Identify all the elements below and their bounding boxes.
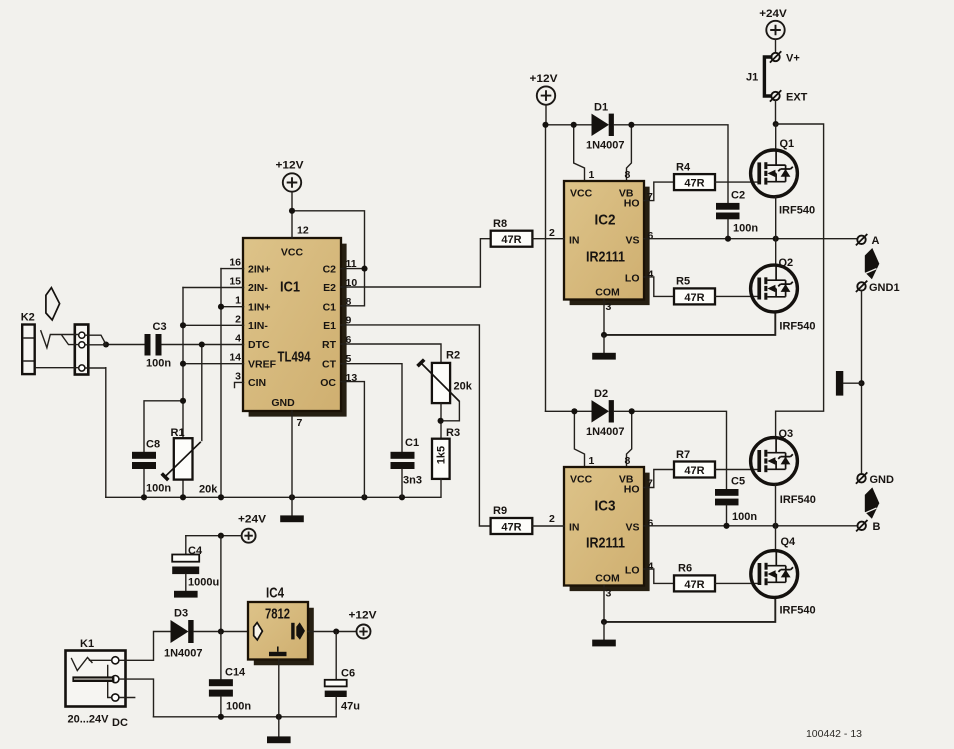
svg-text:IC1: IC1 [280, 279, 300, 296]
capacitor C14 100n [209, 632, 251, 717]
wire K1 pin1 to D3 [119, 632, 171, 661]
svg-text:IRF540: IRF540 [780, 605, 816, 617]
svg-text:DC: DC [112, 717, 128, 729]
svg-text:3: 3 [235, 370, 241, 382]
svg-text:20k: 20k [454, 381, 473, 393]
svg-text:100n: 100n [732, 511, 757, 523]
wire Q4 drain [775, 526, 777, 551]
svg-text:Q1: Q1 [780, 138, 795, 150]
svg-text:D3: D3 [174, 608, 188, 620]
wire COM pin3 down (IC3) [603, 586, 605, 622]
svg-text:47R: 47R [501, 522, 521, 534]
power +24V (bridge) [759, 8, 787, 39]
resistor R4 47R [674, 162, 715, 191]
wire VCC pin12 [291, 192, 293, 238]
terminal A [856, 234, 880, 247]
svg-text:1: 1 [589, 455, 595, 467]
wire R8 to IN [532, 238, 564, 240]
rail riser to K2 sleeve [105, 368, 107, 498]
svg-text:VS: VS [625, 521, 639, 533]
wire E2 pin10 to R8 [341, 239, 491, 287]
svg-text:C5: C5 [731, 476, 745, 488]
wire R1 leads [182, 401, 184, 498]
svg-text:GND1: GND1 [869, 282, 900, 294]
wire Q1 source to VS row [775, 197, 777, 239]
svg-text:100n: 100n [733, 223, 758, 235]
svg-text:J1: J1 [746, 72, 758, 84]
svg-text:CIN: CIN [248, 377, 266, 389]
wire Q2 drain [775, 239, 777, 266]
wire pin11 to pin8 (C2-C1) [341, 269, 365, 306]
wire VS row to terminal A [644, 238, 857, 240]
svg-text:47R: 47R [684, 465, 704, 477]
svg-text:100442 - 13: 100442 - 13 [806, 728, 862, 740]
svg-text:1IN+: 1IN+ [248, 301, 270, 313]
wire +24V bypass to Q3 drain [776, 124, 824, 438]
svg-text:20k: 20k [199, 484, 218, 496]
jumper J1 [746, 57, 771, 96]
svg-text:DTC: DTC [248, 339, 270, 351]
wire 1IN+ pin1 [221, 306, 244, 308]
svg-text:1N4007: 1N4007 [164, 648, 203, 660]
resistor R8 47R [491, 218, 533, 247]
svg-text:R6: R6 [678, 563, 692, 575]
wire feedback bus x183 [182, 288, 184, 401]
ground rail [106, 496, 441, 498]
svg-text:100n: 100n [146, 358, 171, 370]
wire K1 pin3 stub [119, 697, 135, 699]
wire +12V rail down to D2 row [545, 125, 547, 412]
terminal GND1 [856, 281, 900, 294]
wire C8 to bus node [144, 401, 183, 452]
svg-text:1: 1 [235, 295, 241, 307]
capacitor C3 100n [145, 321, 172, 370]
wire ground drop x221 [220, 269, 222, 498]
node dots TL494 area [289, 208, 295, 214]
output arrow A [865, 248, 880, 279]
input signal arrow [46, 288, 60, 320]
svg-text:+12V: +12V [276, 160, 305, 172]
svg-text:1000u: 1000u [188, 577, 219, 589]
svg-text:20...24V: 20...24V [68, 714, 110, 726]
svg-text:C2: C2 [731, 190, 745, 202]
svg-text:R5: R5 [676, 276, 690, 288]
connector K1 [66, 638, 128, 729]
svg-text:OC: OC [320, 377, 336, 389]
svg-text:R2: R2 [446, 350, 460, 362]
svg-text:1IN-: 1IN- [248, 320, 268, 332]
wire R7 to Q3 gate [715, 469, 758, 471]
resistor R6 47R [674, 563, 715, 592]
svg-text:V+: V+ [786, 53, 800, 65]
wire K1 pin2 to bottom rail [119, 679, 154, 717]
svg-text:LO: LO [625, 272, 640, 284]
svg-text:IC2: IC2 [595, 212, 616, 229]
svg-text:100n: 100n [146, 483, 171, 495]
svg-text:IN: IN [569, 521, 580, 533]
wire EXT to drain node [775, 101, 777, 125]
terminal EXT [770, 90, 808, 103]
capacitor C2 100n [716, 190, 758, 235]
wire LO jog to R5 [644, 277, 674, 297]
output arrow B [865, 487, 880, 518]
svg-text:A: A [872, 235, 880, 247]
svg-text:VREF: VREF [248, 358, 277, 370]
svg-text:3n3: 3n3 [403, 475, 422, 487]
wire +12V stem [545, 105, 547, 125]
svg-text:VCC: VCC [570, 187, 593, 199]
wire D1 cathode row to C2 [614, 125, 728, 203]
svg-text:47R: 47R [684, 292, 704, 304]
resistor R9 47R [491, 505, 533, 534]
resistor R7 47R [674, 449, 715, 478]
IC2 IR2111 [564, 181, 650, 305]
wire DTC row left of C3 [106, 344, 145, 346]
wire R2 to R3 [440, 403, 442, 439]
svg-text:R3: R3 [446, 427, 460, 439]
svg-text:HO: HO [624, 197, 640, 209]
svg-text:CT: CT [322, 358, 337, 370]
power +12V (drivers) [530, 73, 559, 105]
wire R3 to rail [440, 479, 442, 497]
svg-text:TL494: TL494 [278, 349, 311, 366]
svg-text:2IN-: 2IN- [248, 282, 268, 294]
svg-text:7: 7 [297, 417, 303, 429]
wire R1 wiper to DTC [201, 345, 203, 441]
power +24V (psu) [238, 514, 267, 543]
svg-text:C1: C1 [323, 301, 337, 313]
svg-text:12: 12 [297, 225, 309, 237]
svg-text:6: 6 [648, 517, 654, 529]
wire CIN pin3 stub [235, 382, 244, 387]
wire D2 cathode row to C5 [614, 411, 727, 489]
power +12V (psu out) [349, 610, 378, 639]
IC2 pin numbers [549, 169, 654, 313]
svg-text:2IN+: 2IN+ [248, 263, 270, 275]
wire 1IN- pin2 [183, 324, 244, 326]
K2 pin header block [75, 325, 89, 375]
svg-text:2: 2 [235, 313, 241, 325]
K2 jack plug contacts [36, 331, 106, 368]
svg-text:IR2111: IR2111 [586, 535, 625, 552]
svg-text:COM: COM [595, 572, 620, 584]
svg-text:+12V: +12V [530, 73, 559, 85]
trimpot R1 20k [162, 427, 219, 496]
svg-text:R4: R4 [676, 162, 691, 174]
wire VS row to terminal B [644, 525, 857, 527]
wire COM to Q4 source [604, 598, 775, 622]
wire VB pin8 jog (IC3) [627, 411, 632, 467]
connector K2 [21, 312, 35, 375]
diode D2 1N4007 [586, 388, 625, 438]
capacitor C4 1000u [172, 536, 219, 598]
wire VB pin8 jog [627, 125, 632, 181]
svg-text:EXT: EXT [786, 92, 808, 104]
svg-text:GND: GND [271, 397, 295, 409]
wire R6 to Q4 gate [715, 582, 758, 584]
wire HO jog to R4 [644, 182, 674, 201]
transistor Q4 IRF540 [751, 536, 816, 617]
svg-text:RT: RT [322, 339, 337, 351]
svg-text:Q4: Q4 [781, 536, 797, 548]
chassis bar [836, 371, 862, 396]
wire COM pin3 down [603, 300, 605, 335]
power +12V (IC1) [276, 160, 305, 192]
svg-text:B: B [873, 521, 881, 533]
svg-text:HO: HO [624, 483, 640, 495]
IC1 TL494 [243, 238, 347, 417]
svg-text:VCC: VCC [570, 473, 593, 485]
wire GND1 to GND [861, 291, 863, 474]
svg-text:2: 2 [549, 513, 555, 525]
wire OC pin13 to rail [341, 382, 364, 498]
svg-text:100n: 100n [226, 701, 251, 713]
wire Q1 drain [775, 124, 777, 150]
svg-text:IRF540: IRF540 [780, 494, 816, 506]
wire Q3 source to B row [775, 484, 777, 525]
wire E1 pin9 to R9 [341, 325, 491, 526]
svg-text:1k5: 1k5 [436, 446, 448, 464]
svg-text:GND: GND [870, 474, 895, 486]
svg-text:R8: R8 [493, 218, 507, 230]
svg-text:1: 1 [589, 169, 595, 181]
wire C1 bottom [401, 469, 403, 497]
wire COM to Q2 source [604, 312, 775, 335]
wire IC4 gnd pin [278, 660, 280, 717]
svg-text:D1: D1 [594, 102, 608, 114]
terminal V+ [770, 51, 800, 64]
wire C2 bottom to VS row [727, 219, 729, 238]
svg-text:C6: C6 [341, 668, 355, 680]
wire DTC row right of C3 [162, 344, 244, 346]
resistor R3 1k5 [432, 427, 460, 479]
wire RT pin6 to R2 [341, 344, 441, 363]
IC4 7812 [248, 585, 314, 666]
wire C5 bottom to VS row [726, 505, 728, 525]
svg-text:C8: C8 [146, 439, 160, 451]
wire 2IN+ pin16 [221, 268, 244, 270]
capacitor C6 47u [325, 632, 360, 717]
svg-text:+12V: +12V [349, 610, 378, 622]
svg-text:IC4: IC4 [266, 585, 285, 602]
svg-text:Q3: Q3 [779, 428, 794, 440]
wire LO jog to R6 [644, 569, 674, 583]
wire IC4 out to +12V [308, 631, 357, 633]
svg-text:E1: E1 [323, 320, 336, 332]
wire VREF pin14 [183, 363, 244, 365]
svg-text:D2: D2 [594, 388, 608, 400]
svg-text:+24V: +24V [238, 514, 267, 526]
capacitor C5 100n [715, 476, 757, 524]
svg-text:E2: E2 [323, 282, 336, 294]
capacitor C8 100n [132, 439, 171, 495]
svg-text:7812: 7812 [265, 606, 290, 623]
transistor Q3 IRF540 [751, 428, 816, 506]
resistor R5 47R [674, 276, 715, 305]
wire CT pin5 to C1 [341, 364, 402, 452]
svg-text:1N4007: 1N4007 [586, 140, 625, 152]
svg-text:IRF540: IRF540 [779, 205, 815, 217]
svg-text:3: 3 [606, 301, 612, 313]
wire VCC pin1 jog [574, 125, 585, 181]
wire R5 to Q2 gate [715, 295, 758, 297]
svg-text:8: 8 [625, 169, 631, 181]
svg-text:IC3: IC3 [595, 498, 616, 515]
svg-text:16: 16 [229, 257, 241, 269]
ground symbol below IC2 [592, 335, 616, 360]
svg-text:15: 15 [229, 276, 241, 288]
svg-text:Q2: Q2 [779, 257, 794, 269]
wire R4 to Q1 gate [715, 181, 758, 183]
svg-text:C3: C3 [153, 321, 167, 333]
svg-text:COM: COM [595, 286, 620, 298]
svg-text:R1: R1 [171, 427, 185, 439]
IC3 pin numbers [549, 455, 654, 600]
capacitor C1 3n3 [391, 437, 422, 487]
svg-text:14: 14 [229, 352, 241, 364]
wire +24V to V+ [775, 39, 777, 52]
wire HO jog to R7 [644, 470, 674, 488]
wire C8 bottom lead [143, 469, 145, 497]
IC3 IR2111 [564, 467, 650, 591]
svg-text:LO: LO [625, 565, 640, 577]
wire GND pin7 [291, 411, 293, 497]
svg-text:K1: K1 [80, 638, 94, 650]
wire 2IN- pin15 [183, 287, 244, 289]
ground symbol below IC4 [267, 717, 291, 743]
svg-text:2: 2 [549, 227, 555, 239]
svg-text:K2: K2 [21, 312, 35, 324]
bottom ground rail [154, 716, 337, 718]
wire D2 anode row [546, 410, 592, 412]
svg-text:47R: 47R [501, 234, 521, 246]
transistor Q1 IRF540 [751, 138, 815, 217]
svg-text:47u: 47u [341, 701, 360, 713]
svg-text:C14: C14 [225, 667, 246, 679]
wire +24V down to D3 node [220, 536, 222, 632]
IC1 pin numbers [229, 225, 357, 430]
svg-text:4: 4 [648, 561, 654, 573]
svg-text:VCC: VCC [281, 247, 304, 259]
svg-text:IR2111: IR2111 [586, 249, 625, 266]
wire D1 anode row [546, 124, 592, 126]
ground symbol below IC3 [592, 622, 616, 646]
svg-text:C1: C1 [405, 437, 419, 449]
wire R9 to IN [532, 525, 564, 527]
svg-text:47R: 47R [684, 178, 704, 190]
svg-text:C4: C4 [188, 545, 203, 557]
svg-text:47R: 47R [684, 579, 704, 591]
svg-text:IN: IN [569, 234, 580, 246]
diode D1 1N4007 [586, 102, 625, 152]
svg-text:4: 4 [648, 268, 654, 280]
wire VCC pin1 jog (IC3) [574, 411, 584, 467]
svg-text:VS: VS [625, 234, 639, 246]
svg-text:+24V: +24V [759, 8, 787, 20]
svg-text:C2: C2 [323, 263, 337, 275]
trimpot R2 20k [418, 350, 473, 421]
wire +12V to pin11 loop [292, 211, 365, 269]
svg-text:IRF540: IRF540 [779, 321, 815, 333]
ground symbol below IC1 [280, 497, 304, 522]
wire +24V rail [186, 535, 242, 537]
terminal GND [856, 472, 894, 485]
svg-text:3: 3 [606, 588, 612, 600]
svg-text:8: 8 [625, 455, 631, 467]
terminal B [856, 520, 880, 533]
svg-text:4: 4 [235, 333, 241, 345]
svg-text:R7: R7 [676, 449, 690, 461]
rail node dots [141, 494, 147, 500]
svg-text:1N4007: 1N4007 [586, 426, 625, 438]
transistor Q2 IRF540 [751, 257, 816, 333]
svg-text:6: 6 [648, 230, 654, 242]
svg-text:R9: R9 [493, 505, 507, 517]
diode D3 1N4007 [164, 608, 203, 660]
wire D3 cathode to IC4 [194, 631, 248, 633]
